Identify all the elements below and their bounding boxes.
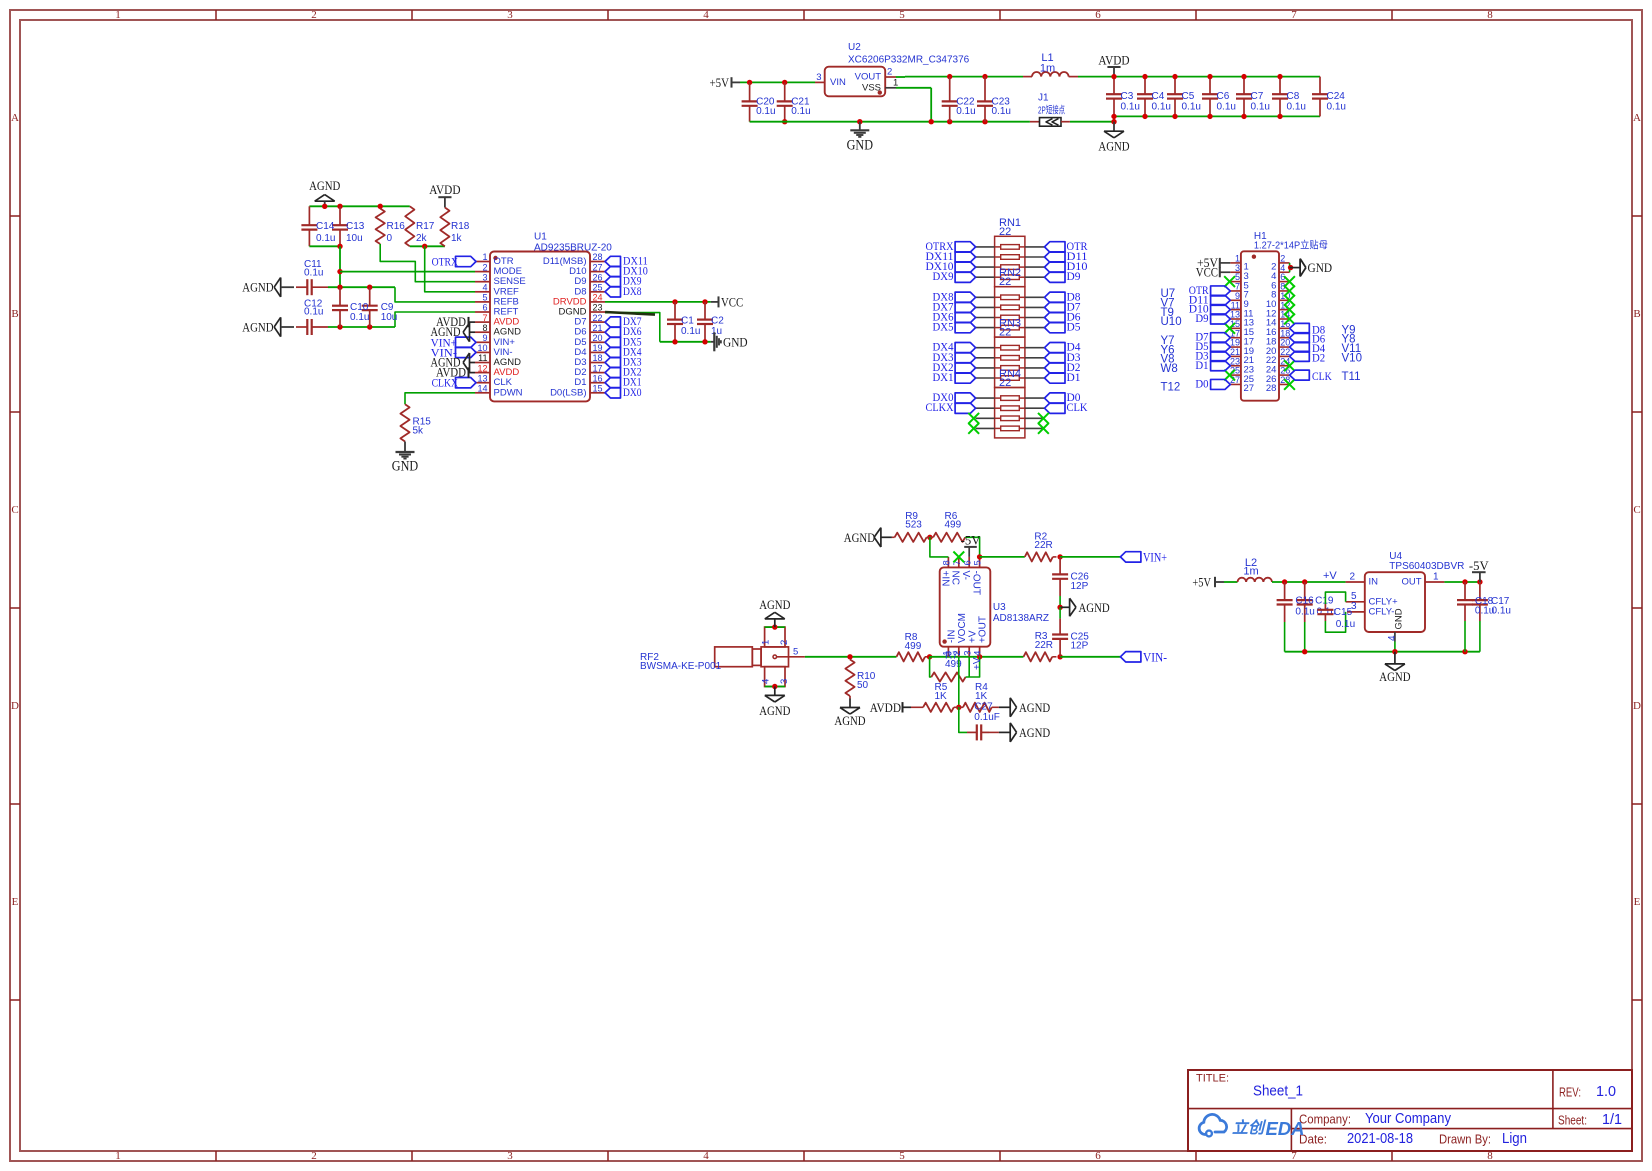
svg-text:1: 1 <box>115 9 121 21</box>
svg-text:DX1: DX1 <box>933 372 954 384</box>
svg-text:6: 6 <box>1095 1150 1101 1162</box>
svg-text:立创: 立创 <box>1232 1119 1267 1137</box>
svg-text:22: 22 <box>999 327 1011 339</box>
svg-text:2021-08-18: 2021-08-18 <box>1347 1131 1413 1147</box>
svg-text:22R: 22R <box>1034 540 1052 551</box>
svg-text:E: E <box>12 896 19 908</box>
svg-text:0.1u: 0.1u <box>350 312 369 323</box>
svg-text:11: 11 <box>478 353 487 363</box>
svg-text:C15: C15 <box>1334 607 1353 618</box>
svg-text:OUT: OUT <box>1401 577 1421 588</box>
svg-text:0.1u: 0.1u <box>1217 101 1236 112</box>
svg-text:3: 3 <box>962 651 973 656</box>
svg-text:1.27-2*14P立贴母: 1.27-2*14P立贴母 <box>1254 239 1328 252</box>
svg-text:VIN-: VIN- <box>1143 649 1167 664</box>
svg-text:22R: 22R <box>1035 640 1053 651</box>
svg-text:CFLY-: CFLY- <box>1369 606 1395 617</box>
svg-text:3: 3 <box>816 72 821 83</box>
svg-text:12P: 12P <box>1071 581 1089 592</box>
svg-text:AGND: AGND <box>1019 725 1050 740</box>
svg-text:-OUT: -OUT <box>971 571 982 595</box>
svg-text:1: 1 <box>482 252 487 262</box>
svg-text:2k: 2k <box>416 233 428 244</box>
svg-text:4: 4 <box>973 651 984 656</box>
svg-text:8: 8 <box>1487 9 1493 21</box>
svg-text:5k: 5k <box>413 425 425 436</box>
svg-text:W8: W8 <box>1161 363 1178 375</box>
svg-text:7: 7 <box>482 313 487 323</box>
svg-text:A: A <box>11 112 19 124</box>
svg-text:1/1: 1/1 <box>1602 1112 1622 1128</box>
svg-text:22: 22 <box>999 377 1011 389</box>
svg-text:+5V: +5V <box>1192 575 1211 590</box>
svg-text:0.1u: 0.1u <box>304 306 323 317</box>
svg-text:2: 2 <box>1349 572 1355 583</box>
svg-text:5: 5 <box>899 1150 905 1162</box>
svg-text:13: 13 <box>477 373 487 383</box>
svg-text:0.1u: 0.1u <box>1121 101 1140 112</box>
svg-text:CLK: CLK <box>1312 371 1332 383</box>
svg-text:AGND: AGND <box>242 320 273 335</box>
svg-text:U1: U1 <box>534 231 547 242</box>
svg-text:499: 499 <box>905 641 922 652</box>
svg-text:10u: 10u <box>381 312 398 323</box>
svg-text:C1: C1 <box>681 316 694 327</box>
svg-text:4: 4 <box>761 679 772 684</box>
svg-text:5: 5 <box>973 560 984 565</box>
svg-text:0.1u: 0.1u <box>956 106 975 117</box>
svg-text:CLK: CLK <box>1067 402 1089 414</box>
svg-text:CLKX: CLKX <box>926 402 955 414</box>
svg-text:VIN+: VIN+ <box>1143 549 1167 564</box>
svg-text:AGND: AGND <box>1079 600 1110 615</box>
svg-text:AGND: AGND <box>309 178 340 193</box>
svg-text:VOUT: VOUT <box>855 72 882 83</box>
svg-text:0.1u: 0.1u <box>992 106 1011 117</box>
svg-text:DX9: DX9 <box>933 271 954 283</box>
svg-text:R18: R18 <box>451 221 470 232</box>
svg-text:1: 1 <box>761 640 772 645</box>
svg-text:U10: U10 <box>1161 316 1182 328</box>
svg-text:DX0: DX0 <box>623 387 642 399</box>
svg-text:2P短接点: 2P短接点 <box>1038 103 1065 116</box>
svg-text:DX8: DX8 <box>623 286 642 298</box>
svg-text:AGND: AGND <box>759 703 790 718</box>
svg-text:+V: +V <box>972 657 983 670</box>
svg-text:GND: GND <box>392 459 418 475</box>
svg-text:C19: C19 <box>1315 596 1334 607</box>
svg-text:V10: V10 <box>1342 352 1362 364</box>
svg-text:AGND: AGND <box>431 356 461 370</box>
svg-text:24: 24 <box>593 293 603 303</box>
svg-text:Your Company: Your Company <box>1365 1111 1452 1127</box>
svg-text:8: 8 <box>482 323 487 333</box>
svg-text:6: 6 <box>482 303 487 313</box>
svg-text:3: 3 <box>507 1150 513 1162</box>
svg-text:0.1u: 0.1u <box>756 106 775 117</box>
svg-text:TPS60403DBVR: TPS60403DBVR <box>1389 561 1464 572</box>
svg-text:D9: D9 <box>1067 271 1081 283</box>
svg-text:1m: 1m <box>1040 62 1055 74</box>
svg-text:1u: 1u <box>711 326 722 337</box>
svg-text:IN: IN <box>1369 577 1379 588</box>
svg-text:5: 5 <box>793 647 798 658</box>
svg-text:GND: GND <box>847 138 873 154</box>
svg-text:D2: D2 <box>1312 352 1325 364</box>
svg-text:18: 18 <box>593 353 603 363</box>
svg-text:D1: D1 <box>1067 372 1081 384</box>
svg-text:Lign: Lign <box>1502 1131 1527 1147</box>
svg-text:AGND: AGND <box>242 280 273 295</box>
svg-text:499: 499 <box>945 520 962 531</box>
svg-text:21: 21 <box>593 323 603 333</box>
svg-text:523: 523 <box>905 520 922 531</box>
svg-text:B: B <box>1633 308 1640 320</box>
svg-text:7: 7 <box>1291 9 1297 21</box>
svg-text:GND: GND <box>723 334 748 349</box>
svg-text:0.1u: 0.1u <box>1152 101 1171 112</box>
svg-text:25: 25 <box>593 283 603 293</box>
svg-text:0.1uF: 0.1uF <box>974 712 1000 723</box>
svg-text:Company:: Company: <box>1299 1112 1351 1127</box>
svg-text:12P: 12P <box>1071 641 1089 652</box>
svg-text:3: 3 <box>779 679 790 684</box>
svg-text:VCC: VCC <box>1196 265 1218 279</box>
svg-text:3: 3 <box>482 272 487 282</box>
svg-text:10: 10 <box>477 343 487 353</box>
svg-text:1: 1 <box>115 1150 121 1162</box>
svg-text:1k: 1k <box>451 233 463 244</box>
svg-text:19: 19 <box>593 343 603 353</box>
svg-text:1K: 1K <box>975 691 988 702</box>
svg-text:C: C <box>11 504 18 516</box>
svg-text:0: 0 <box>387 233 393 244</box>
svg-text:REV:: REV: <box>1559 1085 1581 1100</box>
svg-text:D: D <box>11 700 19 712</box>
svg-text:Sheet_1: Sheet_1 <box>1253 1084 1303 1100</box>
svg-text:22: 22 <box>999 226 1011 238</box>
svg-text:TITLE:: TITLE: <box>1196 1073 1229 1085</box>
svg-text:AGND: AGND <box>759 597 790 612</box>
svg-text:8: 8 <box>942 560 953 565</box>
svg-text:2: 2 <box>311 1150 317 1162</box>
svg-text:1m: 1m <box>1243 566 1258 578</box>
svg-text:1: 1 <box>1433 572 1439 583</box>
svg-text:B: B <box>11 308 18 320</box>
svg-text:D1: D1 <box>1195 360 1208 372</box>
svg-text:D0(LSB): D0(LSB) <box>550 387 586 398</box>
svg-text:AGND: AGND <box>431 325 461 339</box>
svg-text:D: D <box>1633 700 1641 712</box>
svg-text:C16: C16 <box>1295 596 1314 607</box>
svg-text:3: 3 <box>507 9 513 21</box>
svg-text:9: 9 <box>482 333 487 343</box>
svg-text:D5: D5 <box>1067 322 1081 334</box>
svg-text:28: 28 <box>1266 383 1277 394</box>
svg-text:VOCM: VOCM <box>957 613 968 643</box>
svg-text:16: 16 <box>593 373 603 383</box>
svg-text:T11: T11 <box>1342 371 1361 383</box>
svg-text:+5V: +5V <box>710 75 730 90</box>
svg-text:0.1u: 0.1u <box>316 233 335 244</box>
svg-text:14: 14 <box>477 384 487 394</box>
svg-text:D9: D9 <box>1195 313 1208 325</box>
svg-text:50: 50 <box>857 680 869 691</box>
svg-text:BWSMA-KE-P001: BWSMA-KE-P001 <box>640 661 722 672</box>
svg-text:AGND: AGND <box>1019 700 1050 715</box>
svg-text:AVDD: AVDD <box>870 700 901 715</box>
svg-text:C14: C14 <box>316 221 335 232</box>
svg-text:17: 17 <box>593 363 603 373</box>
svg-text:GND: GND <box>1394 608 1405 629</box>
svg-text:AGND: AGND <box>1098 139 1129 154</box>
svg-text:12: 12 <box>477 363 487 373</box>
svg-text:R16: R16 <box>387 221 406 232</box>
svg-text:0.1u: 0.1u <box>1492 605 1511 616</box>
svg-text:22: 22 <box>999 276 1011 288</box>
svg-text:+OUT: +OUT <box>978 616 989 643</box>
svg-text:0.1u: 0.1u <box>1327 101 1346 112</box>
svg-text:1K: 1K <box>935 691 948 702</box>
svg-text:U3: U3 <box>993 602 1006 613</box>
svg-text:+V: +V <box>967 630 978 643</box>
svg-text:+IN: +IN <box>939 571 950 587</box>
svg-text:E: E <box>1634 896 1641 908</box>
svg-text:U2: U2 <box>848 42 861 53</box>
svg-text:Sheet:: Sheet: <box>1558 1113 1587 1128</box>
svg-text:0.1u: 0.1u <box>304 267 323 278</box>
svg-text:+V: +V <box>1323 570 1337 582</box>
svg-text:AVDD: AVDD <box>429 182 460 197</box>
svg-text:6: 6 <box>1095 9 1101 21</box>
svg-text:2: 2 <box>482 262 487 272</box>
svg-text:AGND: AGND <box>834 713 865 728</box>
svg-text:-5V: -5V <box>1469 558 1489 573</box>
svg-text:27: 27 <box>593 262 603 272</box>
svg-text:Drawn By:: Drawn By: <box>1439 1132 1491 1147</box>
svg-text:-5V: -5V <box>961 534 981 548</box>
svg-text:2: 2 <box>887 67 892 78</box>
svg-text:0.1u: 0.1u <box>1287 101 1306 112</box>
svg-text:A: A <box>1633 112 1641 124</box>
svg-text:PDWN: PDWN <box>494 387 523 398</box>
svg-text:XC6206P332MR_C347376: XC6206P332MR_C347376 <box>848 55 970 66</box>
svg-text:NC: NC <box>950 571 961 585</box>
svg-text:AGND: AGND <box>844 530 875 545</box>
svg-text:22: 22 <box>593 313 603 323</box>
svg-text:C: C <box>1633 504 1640 516</box>
svg-text:VIN: VIN <box>830 77 846 88</box>
svg-text:0.1u: 0.1u <box>791 106 810 117</box>
svg-text:1.0: 1.0 <box>1596 1084 1616 1100</box>
svg-text:5: 5 <box>899 9 905 21</box>
svg-text:15: 15 <box>593 384 603 394</box>
svg-text:AD8138ARZ: AD8138ARZ <box>993 613 1049 624</box>
svg-text:-IN: -IN <box>947 630 958 643</box>
svg-text:AVDD: AVDD <box>1098 53 1129 68</box>
svg-text:T12: T12 <box>1161 382 1181 394</box>
svg-text:4: 4 <box>703 9 709 21</box>
svg-text:V-: V- <box>960 571 971 580</box>
svg-text:GND: GND <box>1308 260 1333 275</box>
svg-text:5: 5 <box>482 293 487 303</box>
svg-text:EDA: EDA <box>1265 1118 1304 1139</box>
svg-text:0.1u: 0.1u <box>1182 101 1201 112</box>
svg-text:0.1u: 0.1u <box>1251 101 1270 112</box>
svg-text:20: 20 <box>593 333 603 343</box>
svg-text:23: 23 <box>593 303 603 313</box>
svg-text:2: 2 <box>779 640 790 645</box>
svg-text:C2: C2 <box>711 316 724 327</box>
svg-text:4: 4 <box>482 283 487 293</box>
svg-text:0.1u: 0.1u <box>1336 619 1355 630</box>
svg-text:J1: J1 <box>1038 93 1049 104</box>
svg-text:R17: R17 <box>416 221 435 232</box>
svg-text:0.1u: 0.1u <box>681 326 700 337</box>
svg-text:AGND: AGND <box>1379 669 1410 684</box>
svg-text:OTRX: OTRX <box>432 255 459 269</box>
svg-text:D0: D0 <box>1195 378 1208 390</box>
svg-text:4: 4 <box>1387 635 1398 641</box>
svg-text:10u: 10u <box>346 233 363 244</box>
svg-text:28: 28 <box>593 252 603 262</box>
svg-text:0.1u: 0.1u <box>1295 607 1314 618</box>
svg-text:4: 4 <box>703 1150 709 1162</box>
svg-text:2: 2 <box>311 9 317 21</box>
svg-text:VCC: VCC <box>721 294 743 309</box>
svg-text:27: 27 <box>1244 383 1255 394</box>
svg-text:DX5: DX5 <box>933 322 954 334</box>
svg-text:26: 26 <box>593 272 603 282</box>
svg-text:C13: C13 <box>346 221 365 232</box>
